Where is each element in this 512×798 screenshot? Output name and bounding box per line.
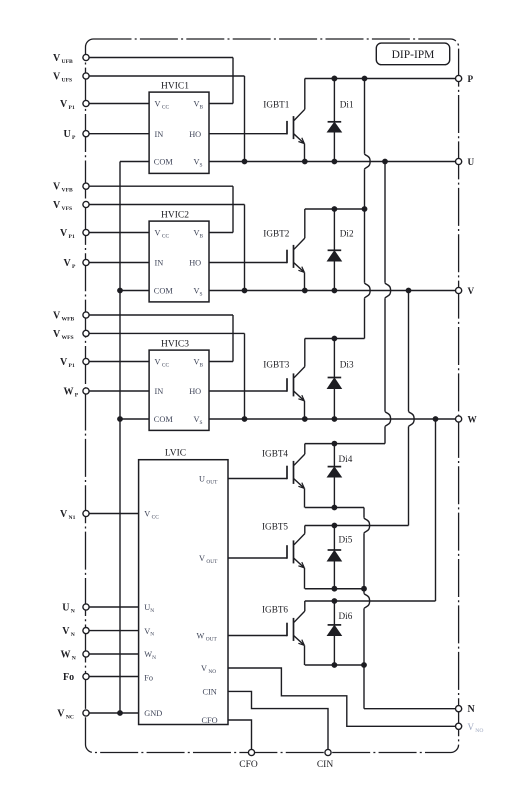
transistor IGBT5 — [287, 526, 305, 589]
wire IGBT4 emitter rail — [305, 507, 364, 509]
terminal V P1 (phase 1) — [83, 100, 89, 106]
svg-text:COM: COM — [154, 287, 174, 296]
svg-text:IGBT2: IGBT2 — [263, 228, 289, 238]
terminal W P input — [83, 388, 89, 394]
wire W phase output rail (VS) — [209, 418, 456, 420]
svg-text:IGBT3: IGBT3 — [263, 360, 289, 370]
svg-text:IN: IN — [155, 130, 164, 139]
junction P rail to collector feeder — [362, 76, 368, 82]
junction tie at IGBT6 emitter — [361, 662, 367, 668]
wire U phase output rail (VS) — [209, 161, 456, 163]
junction Di3 cathode — [332, 336, 338, 342]
junction Di3 anode — [332, 416, 338, 422]
junction feeder at IGBT2 collector rail — [362, 206, 368, 212]
svg-text:U: U — [468, 157, 475, 167]
wire V N to LVIC — [89, 630, 139, 632]
diode Di5 — [328, 526, 342, 589]
svg-text:IN: IN — [155, 387, 164, 396]
junction Di2 anode — [332, 288, 338, 294]
wire U rail down to IGBT4 collector (hops V and W rails) — [385, 162, 391, 444]
wire V UFB to VB pin of HVIC1 — [89, 58, 233, 104]
wire IGBT2 collector rail — [305, 208, 365, 210]
junction Di6 anode — [332, 662, 338, 668]
svg-text:IGBT6: IGBT6 — [262, 605, 288, 615]
wire gate drive to IGBT2 — [209, 262, 287, 264]
svg-text:IGBT4: IGBT4 — [262, 448, 288, 458]
svg-text:COM: COM — [154, 415, 174, 424]
terminal CIN — [325, 749, 331, 755]
svg-text:HO: HO — [189, 387, 201, 396]
wire low-side emitter tie line to N (hops IGBT5 and IGBT6 collector rails) — [364, 508, 370, 709]
terminal V WFS — [83, 330, 89, 336]
svg-text:W: W — [468, 414, 478, 424]
transistor IGBT6 — [287, 601, 305, 665]
svg-text:Di1: Di1 — [340, 100, 354, 110]
wire gate drive to IGBT1 — [209, 133, 287, 135]
svg-text:CIN: CIN — [317, 760, 334, 770]
junction IGBT3 emitter at rail — [302, 416, 308, 422]
package outline DIP-IPM module boundary — [86, 39, 459, 753]
wire CFO from LVIC to bottom terminal — [228, 720, 252, 749]
svg-text:IN: IN — [155, 259, 164, 268]
wire gate drive to IGBT6 — [228, 635, 287, 637]
diode Di3 — [328, 339, 342, 420]
wire V NC to LVIC — [89, 712, 139, 714]
svg-text:IGBT5: IGBT5 — [262, 522, 288, 532]
wire V P to IN pin of HVIC2 — [89, 262, 149, 264]
wire IGBT5 collector rail — [305, 525, 409, 527]
wire V WFS to W phase rail — [89, 333, 244, 419]
junction W rail to IGBT6 collector feeder — [433, 416, 439, 422]
svg-text:CFO: CFO — [239, 760, 258, 770]
terminal W N — [83, 651, 89, 657]
wire V WFB to VB pin of HVIC3 — [89, 315, 233, 362]
wire V NO from LVIC to terminal — [228, 668, 456, 726]
svg-text:CIN: CIN — [203, 688, 217, 697]
wire gate drive to IGBT4 — [228, 478, 287, 480]
junction Di1 cathode — [332, 76, 338, 82]
svg-text:DIP-IPM: DIP-IPM — [392, 49, 435, 61]
svg-text:HVIC2: HVIC2 — [161, 211, 189, 221]
diode Di2 — [328, 209, 342, 291]
svg-text:HVIC3: HVIC3 — [161, 340, 189, 350]
terminal U output — [456, 158, 462, 164]
svg-text:Di2: Di2 — [340, 228, 354, 238]
terminal U N — [83, 604, 89, 610]
diode Di1 — [328, 79, 342, 162]
wire V N1 to LVIC — [89, 513, 139, 515]
svg-text:P: P — [468, 74, 474, 84]
junction V VFS at V rail — [242, 288, 248, 294]
transistor IGBT3 — [287, 339, 305, 420]
wire U N to LVIC — [89, 606, 139, 608]
wire gate drive to IGBT5 — [228, 557, 287, 559]
wire COM pin of HVIC3 to COM bus — [120, 418, 149, 420]
diode Di4 — [328, 444, 342, 508]
wire COM pin of HVIC1 to COM bus — [120, 161, 149, 163]
wire P bus rail — [305, 78, 456, 80]
junction COM bus at HVIC2 — [117, 288, 123, 294]
wire V P1 to VCC pin of HVIC3 — [89, 361, 149, 363]
terminal CFO — [248, 749, 254, 755]
terminal U P input — [83, 131, 89, 137]
op-amp HVIC1 high voltage driver IC — [149, 82, 209, 174]
junction Di4 anode — [332, 505, 338, 511]
junction V rail to IGBT5 collector feeder — [406, 288, 412, 294]
terminal V NC — [83, 710, 89, 716]
svg-text:HVIC1: HVIC1 — [161, 82, 189, 92]
terminal V UFB — [83, 54, 89, 60]
op-amp HVIC2 high voltage driver IC — [149, 211, 209, 302]
terminal V output — [456, 287, 462, 293]
wire V UFS to U phase rail — [89, 76, 244, 162]
junction Di4 cathode — [332, 441, 338, 447]
terminal V UFS — [83, 73, 89, 79]
terminal V WFB — [83, 312, 89, 318]
junction IGBT1 emitter at rail — [302, 159, 308, 165]
terminal V P input — [83, 259, 89, 265]
wire V rail down to IGBT5 collector (hops W rail) — [409, 291, 415, 526]
svg-text:HO: HO — [189, 130, 201, 139]
svg-text:LVIC: LVIC — [165, 449, 186, 459]
terminal P — [456, 75, 462, 81]
wire COM pin of HVIC2 to COM bus — [120, 290, 149, 292]
junction COM bus at GND — [117, 710, 123, 716]
wire IGBT4 collector rail — [305, 443, 385, 445]
transistor IGBT1 — [287, 79, 305, 162]
junction tie at IGBT5 emitter — [361, 586, 367, 592]
svg-text:COM: COM — [154, 158, 174, 167]
wire Fo to LVIC — [89, 676, 139, 678]
svg-text:IGBT1: IGBT1 — [263, 100, 289, 110]
wire V P1 to VCC pin of HVIC1 — [89, 103, 149, 105]
svg-text:Fo: Fo — [144, 674, 153, 683]
terminal V P1 (phase 2) — [83, 229, 89, 235]
junction Di2 cathode — [332, 206, 338, 212]
junction V WFS at W rail — [242, 416, 248, 422]
wire IGBT6 emitter rail — [305, 664, 364, 666]
op-amp HVIC3 high voltage driver IC — [149, 340, 209, 431]
junction Di6 cathode — [332, 598, 338, 604]
label box DIP-IPM — [376, 43, 449, 65]
diode Di6 — [328, 601, 342, 665]
terminal W output — [456, 416, 462, 422]
junction V UFS at U rail — [242, 159, 248, 165]
svg-text:Di3: Di3 — [340, 360, 354, 370]
wire IGBT6 collector rail — [305, 600, 436, 602]
junction Di5 anode — [332, 586, 338, 592]
junction IGBT2 emitter at rail — [302, 288, 308, 294]
transistor IGBT2 — [287, 209, 305, 291]
wire W P to IN pin of HVIC3 — [89, 390, 149, 392]
wire COM bus (HVIC COM pins to GND) — [119, 162, 121, 714]
wire P feeder down to IGBT2 and IGBT3 collectors (hops U and V rails) — [365, 79, 371, 339]
junction Di1 anode — [332, 159, 338, 165]
terminal V NO — [456, 723, 462, 729]
terminal V N1 — [83, 510, 89, 516]
wire V phase output rail (VS) — [209, 290, 456, 292]
svg-text:CFO: CFO — [202, 716, 218, 725]
svg-text:HO: HO — [189, 259, 201, 268]
junction Di5 cathode — [332, 523, 338, 529]
terminal Fo — [83, 673, 89, 679]
wire N rail to terminal — [364, 708, 456, 710]
wire V VFS to V phase rail — [89, 205, 244, 291]
terminal V VFB — [83, 183, 89, 189]
wire U P to IN pin of HVIC1 — [89, 133, 149, 135]
svg-text:Di6: Di6 — [339, 611, 353, 621]
svg-text:Di4: Di4 — [339, 454, 353, 464]
terminal N — [456, 706, 462, 712]
transistor IGBT4 — [287, 444, 305, 508]
junction Di1 cathode at P rail — [332, 76, 338, 82]
wire gate drive to IGBT3 — [209, 390, 287, 392]
wire W N to LVIC — [89, 653, 139, 655]
wire V P1 to VCC pin of HVIC2 — [89, 232, 149, 234]
svg-text:GND: GND — [144, 709, 162, 718]
wire W rail down to IGBT6 collector — [435, 419, 437, 601]
op-amp LVIC low voltage driver IC — [139, 449, 228, 726]
svg-text:V: V — [468, 286, 475, 296]
terminal V P1 (phase 3) — [83, 358, 89, 364]
junction U rail to IGBT4 collector feeder — [382, 159, 388, 165]
wire V VFB to VB pin of HVIC2 — [89, 186, 233, 232]
wire IGBT3 collector rail — [305, 338, 365, 340]
svg-text:Fo: Fo — [63, 672, 74, 683]
svg-text:N: N — [468, 704, 476, 715]
wire IGBT5 emitter rail — [305, 588, 364, 590]
svg-text:Di5: Di5 — [339, 535, 353, 545]
terminal V VFS — [83, 201, 89, 207]
junction COM bus at HVIC3 — [117, 416, 123, 422]
wire CIN from LVIC to bottom terminal — [228, 691, 328, 749]
terminal V N — [83, 628, 89, 634]
